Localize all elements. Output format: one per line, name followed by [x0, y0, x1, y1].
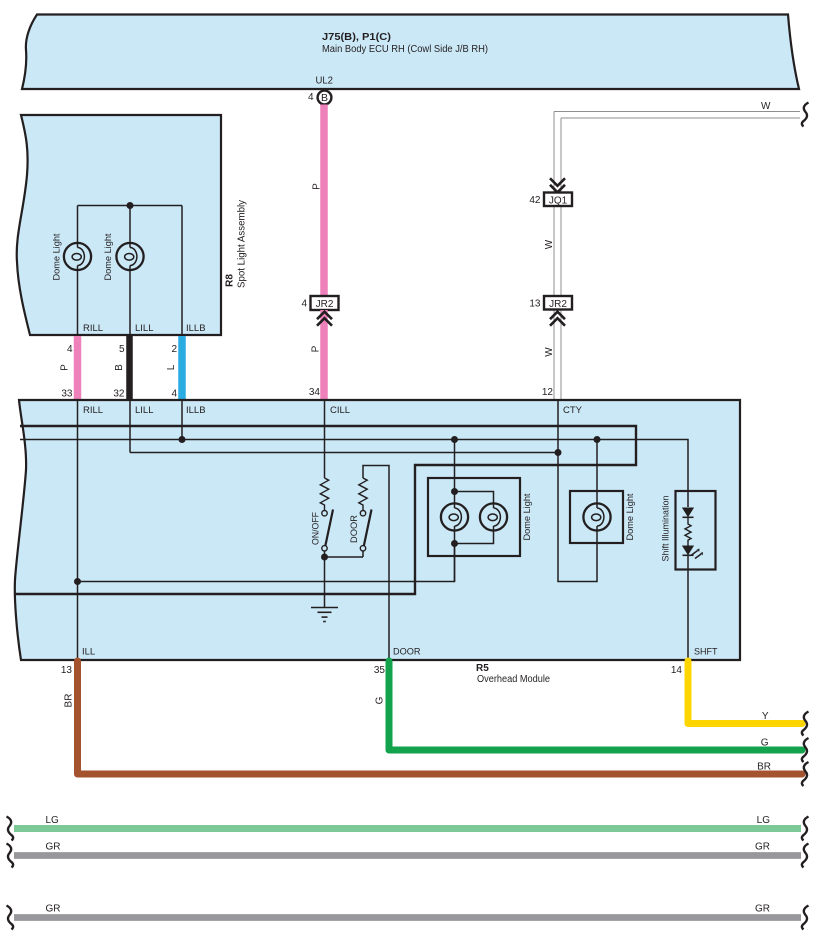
- junction dot ILLB / bus B: [179, 436, 186, 443]
- break symbol LG right: [802, 817, 809, 841]
- wire W vertical to JQ1: [554, 112, 561, 400]
- bulb dome light 1 (R8): [64, 243, 91, 270]
- svg-text:GR: GR: [46, 842, 61, 853]
- svg-text:RILL: RILL: [83, 323, 103, 334]
- wire shift feed inside: [687, 491, 689, 507]
- svg-text:Spot Light Assembly: Spot Light Assembly: [237, 200, 248, 288]
- connector JR2 (white wire): [544, 296, 572, 310]
- svg-text:34: 34: [309, 387, 321, 398]
- svg-text:GR: GR: [46, 904, 61, 915]
- svg-text:W: W: [544, 347, 555, 357]
- wire DOOR top to DOOR pin: [363, 466, 389, 661]
- bulb dome light 2 (R8): [116, 243, 143, 270]
- overhead module block R5: [15, 400, 740, 660]
- svg-text:ILL: ILL: [82, 647, 95, 658]
- resistor DOOR: [359, 478, 367, 510]
- break symbol GR2 left: [7, 906, 14, 930]
- wire CTY column down to corner: [558, 400, 597, 582]
- svg-text:DOOR: DOOR: [349, 515, 360, 543]
- dome light 2 box: [570, 491, 623, 543]
- svg-text:ON/OFF: ON/OFF: [310, 512, 321, 545]
- wire dome1 bottom to line E: [454, 530, 456, 581]
- svg-text:Main Body ECU RH (Cowl Side J/: Main Body ECU RH (Cowl Side J/B RH): [322, 44, 488, 55]
- junction dot dome1 bottom: [451, 540, 458, 547]
- svg-text:P: P: [59, 364, 70, 371]
- svg-text:R5: R5: [476, 663, 489, 674]
- wire ILLB down to bus B: [181, 400, 183, 440]
- connector JR2 (pink wire): [311, 296, 339, 310]
- wire ILL column: [77, 400, 79, 660]
- wire LG light green: [14, 825, 801, 832]
- svg-text:W: W: [544, 239, 555, 249]
- break symbol GR1 left: [7, 844, 14, 868]
- crossover chevron above JQ1: [550, 178, 565, 192]
- svg-text:G: G: [761, 738, 769, 749]
- wire dome1 parallel bottom: [455, 530, 494, 543]
- dome light 1 box: [428, 478, 520, 556]
- svg-text:SHFT: SHFT: [694, 647, 718, 658]
- svg-text:BR: BR: [757, 762, 771, 773]
- svg-text:12: 12: [542, 387, 554, 398]
- svg-text:13: 13: [61, 665, 73, 676]
- ECU block J75(B) P1(C) Main Body ECU RH: [22, 15, 799, 90]
- bulb dome light 1b: [480, 503, 507, 530]
- svg-text:CILL: CILL: [330, 405, 350, 416]
- svg-text:Shift Illumination: Shift Illumination: [661, 496, 672, 562]
- break symbol GR2 right: [802, 906, 809, 930]
- junction dot CTY / bus C: [555, 449, 562, 456]
- svg-text:35: 35: [374, 665, 386, 676]
- svg-text:J75(B), P1(C): J75(B), P1(C): [322, 32, 391, 43]
- wire L (blue) ILLB stub: [178, 336, 186, 399]
- diode D1: [683, 508, 694, 517]
- resistor ON/OFF: [320, 478, 328, 510]
- break symbol GR1 right: [802, 844, 809, 868]
- wire bus A thick pass-through: [15, 426, 636, 594]
- svg-text:LILL: LILL: [135, 323, 154, 334]
- bulb dome light 1a: [441, 503, 468, 530]
- wire BR brown: [78, 661, 803, 774]
- svg-text:Overhead Module: Overhead Module: [477, 674, 550, 685]
- wire P (pink) from JR2 to CILL: [320, 310, 328, 399]
- svg-text:B: B: [321, 92, 328, 104]
- svg-text:ILLB: ILLB: [186, 323, 206, 334]
- svg-text:ILLB: ILLB: [186, 405, 206, 416]
- wire CILL column: [324, 400, 326, 478]
- break symbol LG left: [7, 817, 14, 841]
- wire B (black) LILL stub: [126, 336, 133, 399]
- wire dome light 1 feed: [454, 440, 456, 504]
- svg-text:4: 4: [171, 389, 177, 400]
- wire GR gray 1: [14, 852, 801, 859]
- break symbol G: [802, 738, 809, 762]
- connector B (UL2): [318, 91, 332, 105]
- svg-text:13: 13: [529, 299, 541, 310]
- wire shift to SHFT pin: [687, 555, 689, 660]
- svg-text:UL2: UL2: [316, 76, 334, 87]
- wire line E ILL branch: [78, 544, 455, 582]
- wire bus C LILL to CTY: [130, 452, 558, 454]
- junction dot: [127, 202, 134, 209]
- wire W (white) horizontal from right break: [554, 112, 800, 119]
- svg-text:JR2: JR2: [316, 299, 334, 310]
- svg-text:LG: LG: [46, 815, 60, 826]
- svg-text:DOOR: DOOR: [393, 647, 421, 658]
- svg-text:JQ1: JQ1: [549, 195, 568, 206]
- svg-text:L: L: [166, 364, 177, 370]
- wire dome light 2 feed: [596, 440, 598, 504]
- crossover chevron below JR2: [317, 312, 332, 326]
- wire P (pink) from ECU to JR2: [320, 105, 328, 297]
- svg-text:CTY: CTY: [563, 405, 583, 416]
- wire bus B ILLB net: [20, 440, 688, 492]
- svg-text:32: 32: [113, 389, 125, 400]
- break symbol Y: [802, 712, 809, 736]
- wire RILL branch: [77, 206, 79, 244]
- LED shift illumination: [683, 546, 704, 559]
- wire Y yellow: [688, 661, 802, 724]
- junction dot bus B dome 1: [451, 436, 458, 443]
- svg-text:Dome Light: Dome Light: [52, 233, 63, 280]
- wire GR gray 2: [14, 914, 801, 921]
- wire G green: [389, 661, 802, 750]
- wire ILLB branch: [181, 206, 183, 337]
- svg-text:Y: Y: [762, 711, 769, 722]
- wire DOOR bottom link: [325, 556, 364, 558]
- svg-text:RILL: RILL: [83, 405, 103, 416]
- spot light assembly block R8: [17, 115, 221, 335]
- svg-text:JR2: JR2: [549, 299, 567, 310]
- crossover chevron below JR2 white: [550, 312, 565, 326]
- svg-text:B: B: [114, 364, 125, 371]
- wire P (pink) RILL stub: [74, 336, 82, 399]
- shift illumination box: [676, 491, 716, 570]
- wire LILL branch: [129, 206, 131, 244]
- svg-text:4: 4: [67, 344, 73, 355]
- bulb dome light 2: [583, 503, 610, 530]
- svg-text:4: 4: [308, 92, 314, 103]
- wire internal top bus in R8: [78, 205, 183, 207]
- svg-text:BR: BR: [63, 694, 74, 708]
- junction dot dome1 top: [451, 488, 458, 495]
- break symbol right of wire W: [802, 103, 809, 127]
- svg-text:W: W: [761, 101, 771, 112]
- svg-text:GR: GR: [755, 904, 770, 915]
- wire dome1 parallel top: [455, 492, 494, 504]
- svg-text:42: 42: [529, 195, 541, 206]
- ground: [311, 608, 338, 622]
- switch DOOR: [360, 510, 371, 558]
- svg-text:33: 33: [61, 389, 73, 400]
- junction dot switches: [321, 554, 328, 561]
- svg-text:R8: R8: [225, 274, 236, 287]
- svg-text:2: 2: [171, 344, 177, 355]
- svg-text:4: 4: [301, 299, 307, 310]
- switch ON/OFF: [322, 510, 333, 552]
- svg-text:P: P: [311, 345, 322, 352]
- svg-text:14: 14: [671, 665, 683, 676]
- junction dot ILL / line E: [74, 578, 81, 585]
- svg-text:LG: LG: [757, 815, 771, 826]
- resistor shift: [685, 517, 691, 546]
- wire LILL down to bus C: [129, 400, 131, 453]
- svg-text:LILL: LILL: [135, 405, 154, 416]
- svg-text:G: G: [375, 696, 386, 704]
- wire switch to ground junction: [324, 551, 326, 608]
- svg-text:5: 5: [119, 344, 125, 355]
- break symbol BR: [802, 762, 809, 786]
- svg-text:Dome Light: Dome Light: [103, 233, 114, 280]
- junction dot bus B dome 2: [594, 436, 601, 443]
- connector JQ1: [544, 193, 572, 207]
- svg-text:Dome Light: Dome Light: [522, 493, 533, 540]
- svg-text:P: P: [312, 183, 323, 190]
- svg-text:GR: GR: [755, 842, 770, 853]
- svg-text:Dome Light: Dome Light: [625, 493, 636, 540]
